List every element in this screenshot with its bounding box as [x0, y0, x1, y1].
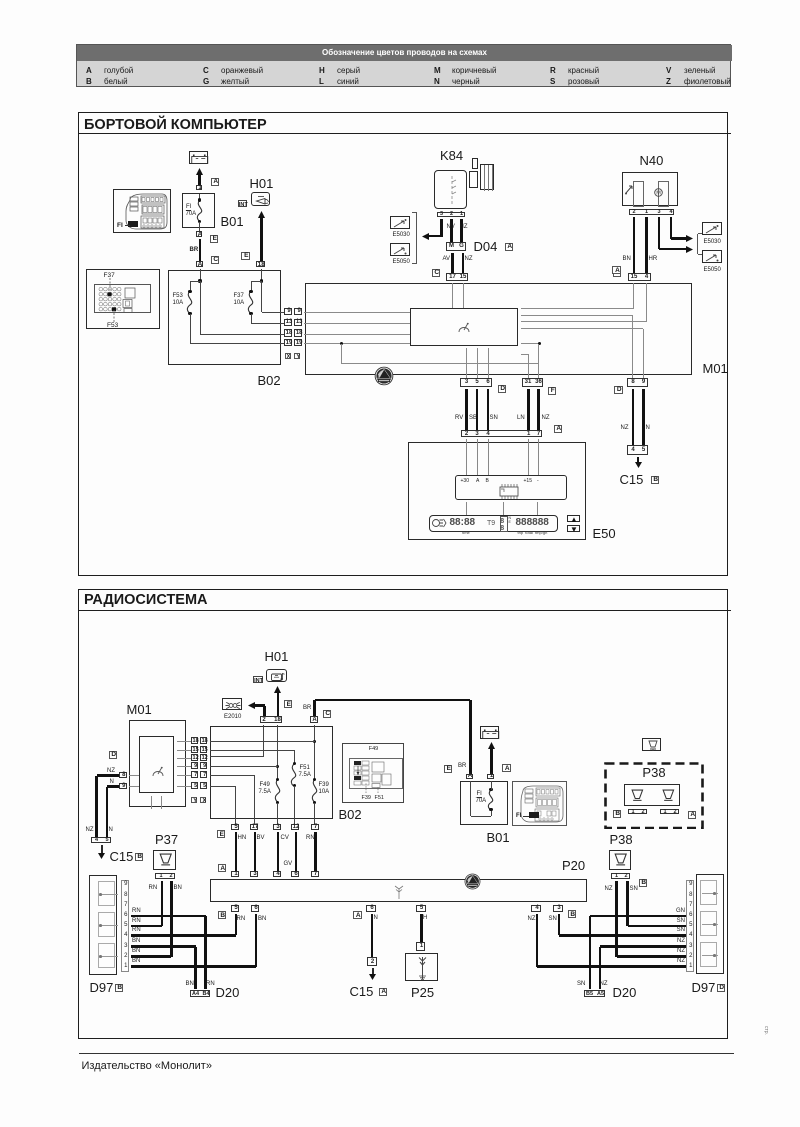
- wire row9 to F49 to pin18top: [277, 725, 278, 779]
- fuse F49 7.5A: [271, 779, 285, 802]
- instrument cluster M01 (sec1): [305, 283, 692, 375]
- wire N40 pin3 to E5050: [658, 217, 661, 250]
- ground point E5050: [390, 243, 410, 256]
- page edge mark: [763, 1026, 769, 1035]
- stalk switch K84: [440, 149, 463, 163]
- pin A on B02 top: [310, 716, 318, 723]
- wire B02 pin 18 to H01: [260, 217, 263, 261]
- rear speaker assembly P38 (dashed): [604, 762, 704, 830]
- node D: [109, 751, 118, 759]
- headlight switch feed E2010: [222, 698, 242, 710]
- node E: [217, 830, 226, 838]
- node INT: [253, 676, 263, 683]
- ground point E5030 right: [702, 222, 722, 236]
- wire D97R pin3 to D20 A5: [600, 945, 686, 948]
- fuse box B01 (sec1): [182, 193, 215, 228]
- section frame: radio system: [78, 589, 728, 1039]
- pin A below B01: [196, 231, 202, 237]
- node A: [211, 178, 220, 186]
- pin 18 on B02 top: [256, 261, 266, 268]
- connector pins B02 bottom (sec2): [231, 824, 239, 830]
- D97L internals: [98, 881, 116, 906]
- wire row7 to pin17: [210, 775, 254, 776]
- antenna P25: [405, 953, 438, 981]
- wire row18 + A feed + fuse F39: [314, 725, 315, 779]
- wire N40 pin4 to E5030: [670, 217, 673, 239]
- gray wires M01 rows: [304, 312, 410, 313]
- wires pcb to display: [466, 502, 467, 516]
- heater/fan switch N40: [640, 154, 664, 168]
- long wire B02-A to B01 (sec2): [313, 700, 316, 716]
- bracket E5030/E5050: [416, 212, 417, 264]
- wire row12 to pin2: [263, 725, 264, 757]
- fuse FI 70A (sec1): [199, 194, 200, 200]
- wire row19 right stub: [521, 343, 540, 344]
- wires NZ N from connector D to C15: [632, 389, 635, 446]
- pins 8 9 on M01 left: [119, 772, 127, 778]
- node D: [717, 984, 726, 992]
- wire N M01-9 to C15: [107, 785, 119, 788]
- node F: [548, 387, 557, 395]
- publisher footer: [82, 1060, 212, 1072]
- node A: [218, 864, 227, 872]
- wire junction to pins 31/36: [341, 344, 342, 364]
- wires RV SB SN from connector D: [465, 389, 468, 431]
- node INT: [238, 200, 248, 207]
- wire F53 out to pin 19: [190, 314, 191, 344]
- footer rule: [79, 1053, 734, 1055]
- wire battery to B01 pin 1: [198, 174, 201, 185]
- wire K84 pin3 to E5030/E5050: [440, 219, 443, 238]
- wires connector A into module: [633, 283, 634, 308]
- connector 4 5: [627, 445, 648, 455]
- wire P37-2 row: [131, 955, 172, 958]
- connector pins B02-M01 (sec1): [284, 308, 292, 315]
- wire D97L pin6 to D20 B4: [131, 915, 206, 918]
- pins 1 2 left: [628, 809, 647, 815]
- connector B5 A5 (D20): [584, 990, 605, 998]
- wire HR N40 pin1: [645, 217, 648, 273]
- wires LN NZ from connector F: [527, 389, 530, 431]
- wires K84 pins 2,1 to D04: [450, 219, 453, 243]
- wire D97L pin3 to D20 A4: [131, 945, 196, 948]
- connector D97 left: [89, 875, 117, 975]
- wire color legend table: [76, 44, 731, 88]
- node X: [200, 797, 206, 803]
- wires inner box to pins 3 5 6: [466, 348, 467, 378]
- wire row15 + fuse F51: [210, 750, 294, 751]
- node C: [432, 269, 441, 277]
- connector 15 4 on M01 top: [628, 273, 651, 281]
- junction box B02 (sec1): [168, 270, 281, 365]
- node Y: [191, 797, 197, 803]
- D97R internals: [700, 880, 718, 905]
- junction box B02 (sec2): [210, 726, 333, 819]
- pin 1 P25: [416, 942, 425, 951]
- wire P38-1 NZ to D97 pin2: [615, 881, 618, 957]
- node E: [210, 235, 219, 243]
- wire BR: B01 to B02: [190, 247, 199, 254]
- wire H to P25: [420, 914, 423, 943]
- inner pcb box: [455, 475, 567, 500]
- pins 1 2 right: [660, 809, 679, 815]
- wire 18-top to pin 9: [261, 281, 262, 312]
- wire B02 pin 18 up to H01: [277, 692, 280, 717]
- connector pins M01-B02 (sec2): [191, 737, 198, 744]
- gray wires module to pins (sec2): [177, 741, 192, 742]
- rear right speaker P38: [610, 833, 633, 847]
- wire P20-6 BN to D97L pin1: [255, 914, 258, 967]
- connector 31 36 on M01 bottom: [522, 378, 543, 387]
- Lancia logo on P20: [464, 873, 481, 890]
- connector 17 15 on M01 top: [446, 273, 468, 281]
- speaker P37: [155, 833, 178, 847]
- node E: [284, 700, 293, 708]
- pin 1 of B01: [196, 185, 202, 190]
- horn/clock unit H01 (sec1): [250, 177, 274, 191]
- wire P37-1 row: [131, 925, 162, 928]
- wire F37 out to pin 13: [251, 314, 252, 324]
- node A: [688, 811, 697, 819]
- node B: [651, 476, 660, 484]
- fuse F51 7.5A: [287, 764, 301, 786]
- connector 2 18 on B02 top: [260, 716, 283, 723]
- pins 3 2 1 of K84: [437, 212, 465, 217]
- speaker location icon: [642, 738, 662, 751]
- clock H01 (sec2): [265, 650, 289, 664]
- wire A feed inside B02: [200, 269, 201, 281]
- connector 4 3 (B) under P20: [531, 905, 541, 912]
- node B: [115, 984, 124, 992]
- node A: [612, 266, 621, 275]
- fuse panel location drawing F37/F53 (sec1): [86, 269, 160, 329]
- section frame: on-board computer: [78, 112, 728, 576]
- wire P38-2 SN to D97 pin5: [626, 881, 629, 926]
- wire D97R pin6 to D20 B5: [590, 915, 686, 918]
- node A: [505, 243, 514, 251]
- wires connector C into module: [452, 283, 453, 308]
- node Y: [294, 353, 300, 359]
- ground C15: [637, 457, 639, 464]
- battery (sec2): [480, 726, 499, 739]
- wire BN N40 pin2: [633, 217, 636, 273]
- battery G01 (sec1): [189, 151, 208, 164]
- wire P20-5 RN to D97L pin4: [235, 914, 238, 936]
- fuse panel location drawing (sec2): [512, 781, 567, 826]
- wires connector to pcb: [466, 439, 467, 475]
- pins 2 1 3 4 of N40: [629, 209, 674, 215]
- node E: [444, 765, 453, 773]
- node D: [498, 385, 507, 393]
- node A: [353, 911, 362, 919]
- svg-text:M: M: [656, 190, 661, 196]
- wires B02 to P20 connector: [235, 832, 238, 871]
- bracket: [697, 234, 698, 255]
- wire P20-3 SN to D97R pin4: [558, 914, 561, 936]
- pins A 1 of B01: [466, 774, 473, 780]
- speaker icon left: [630, 789, 645, 803]
- node C: [211, 256, 220, 264]
- connector on E50: 2 3 4 1 7: [461, 430, 542, 437]
- node E: [241, 252, 250, 260]
- wires AV NZ to connector C: [443, 256, 451, 263]
- wire 18-top feed inside B02: [261, 269, 262, 281]
- connector 3 5 6 on M01 bottom: [460, 378, 492, 387]
- connector D04 M G: [446, 242, 466, 251]
- instrument cluster M01 (sec2): [127, 703, 152, 717]
- fuse F39 10A: [308, 779, 322, 802]
- node C: [323, 710, 332, 718]
- wire P37-2 BN: [170, 881, 173, 957]
- pin 2 C15: [367, 957, 377, 966]
- wire row5 to pin5: [210, 786, 236, 787]
- ground point E5050 right: [702, 250, 722, 264]
- ground point E5030: [390, 216, 410, 229]
- wire A to pin 18: [200, 281, 201, 334]
- ground C15: [101, 845, 103, 855]
- IC chip: [498, 483, 520, 500]
- wire P20-4 NZ to D97R pin1: [536, 914, 539, 967]
- fuse box B01 (sec2): [460, 781, 508, 825]
- node A: [613, 269, 622, 277]
- fuse FI 70A (sec2): [470, 781, 471, 816]
- connector D97 right: [696, 874, 725, 974]
- connector 4 5 (C15 sec2 left): [91, 837, 111, 844]
- radio unit P20: [562, 859, 585, 873]
- node B: [218, 911, 227, 919]
- connector 5 6 (B) under P20: [231, 905, 239, 912]
- connector A4 B4 (D20): [190, 990, 211, 998]
- Lancia logo (sec1): [374, 366, 394, 386]
- fuse F53 10A: [183, 291, 197, 314]
- wire B01 pin1 to battery: [490, 748, 493, 774]
- connector 6 5 (A) under P20: [366, 905, 376, 912]
- fuse F37 10A: [244, 291, 258, 314]
- wire B02 pin2 to E2010: [254, 704, 265, 707]
- node D: [614, 386, 623, 394]
- node B: [639, 879, 648, 887]
- node A: [502, 764, 511, 772]
- node B: [568, 910, 577, 918]
- up/down buttons: [567, 515, 580, 523]
- connector 1 3 4 6 7 on P20: [231, 871, 239, 877]
- ground C15: [372, 968, 374, 975]
- fuse panel location drawing F49/F39/F51: [342, 743, 404, 803]
- wire N to C15: [371, 914, 374, 958]
- wire NZ M01-8 to C15: [97, 774, 119, 777]
- display window: [429, 515, 558, 533]
- node A: [554, 425, 563, 433]
- node X: [285, 353, 291, 359]
- trip computer module inside M01: [410, 308, 518, 346]
- wire P37-1 RN: [161, 881, 164, 926]
- node B: [613, 810, 622, 818]
- speaker icon right: [661, 789, 676, 803]
- pin A on B02 top: [196, 261, 203, 268]
- wires module to pins 8 9: [632, 315, 633, 378]
- node B: [135, 853, 144, 861]
- node A: [379, 988, 388, 996]
- fuse panel location drawing FI (sec1): [113, 189, 171, 233]
- connector 8 9 on M01 bottom: [627, 378, 648, 387]
- trip computer display E50: [408, 442, 586, 540]
